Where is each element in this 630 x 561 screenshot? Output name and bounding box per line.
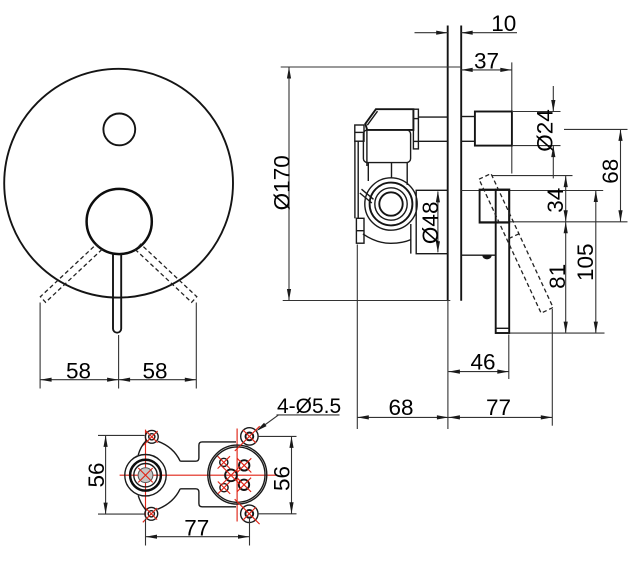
red X hole top-right <box>237 458 251 472</box>
left inner circle <box>134 464 157 487</box>
dim 10 right segment <box>461 32 517 34</box>
right top ear lobe <box>241 428 258 445</box>
red centerline horizontal <box>120 474 277 476</box>
valve top box right flange <box>413 109 418 149</box>
lower left tab <box>356 218 364 243</box>
upper left tab divider <box>355 131 364 133</box>
extension handle bottom <box>496 332 605 334</box>
hole bottom-left <box>220 484 228 492</box>
svg-text:4-Ø5.5: 4-Ø5.5 <box>277 395 341 418</box>
dim 81 <box>565 222 567 333</box>
extension line left 58 <box>39 303 41 389</box>
dim 56 left <box>105 435 107 514</box>
dimension line 58 58 <box>40 379 196 381</box>
left top ear lobe <box>145 430 158 443</box>
left body edge top <box>138 441 146 455</box>
dim 46 extension <box>508 335 510 380</box>
svg-text:37: 37 <box>474 49 499 74</box>
dim D170 line <box>288 67 290 301</box>
connector line right <box>406 163 408 185</box>
extension of wall line down <box>447 301 449 429</box>
extension valve body left down <box>356 245 358 430</box>
right plate outer circle <box>208 445 267 504</box>
cartridge housing circle <box>365 178 417 230</box>
dim 77 extension left <box>145 519 147 546</box>
red X on left hole <box>138 468 152 482</box>
cartridge middle circle <box>375 188 407 220</box>
left column line inner <box>357 141 359 218</box>
upper left tab <box>355 125 364 141</box>
cartridge inner circle <box>379 192 402 215</box>
extension line y190 <box>461 190 603 192</box>
trim sleeve bottom line <box>461 254 496 256</box>
valve top box chamfer inner line <box>367 111 377 125</box>
right plate inner circle <box>210 447 265 502</box>
handle bar cap line <box>496 327 510 329</box>
red X right top ear <box>235 426 260 451</box>
spout neck bottom <box>461 140 475 142</box>
cartridge outer circle <box>370 183 413 226</box>
red X hole bottom-left <box>218 482 230 494</box>
wall front line <box>447 26 449 301</box>
escutcheon plate circle <box>4 69 233 298</box>
dim 105 <box>595 191 597 334</box>
handle base circle <box>87 189 152 254</box>
dim 68 bottom <box>357 416 448 418</box>
dim 77 extension right <box>249 518 251 546</box>
left bottom ear lobe <box>145 507 158 520</box>
red X left top ear <box>143 431 157 445</box>
extension line y221 <box>480 221 628 223</box>
red X hole bottom-right <box>237 478 251 492</box>
red X left bottom ear <box>143 508 157 522</box>
hole top-left <box>220 458 228 466</box>
svg-text:68: 68 <box>598 159 623 184</box>
diverter button <box>103 113 135 145</box>
left body bulge bottom <box>157 489 180 510</box>
valve mid box <box>363 130 410 163</box>
connector line left <box>367 163 369 181</box>
inlet pipe to wall top <box>418 116 447 118</box>
red centerline vertical left <box>145 430 147 518</box>
dim 56 right extension top <box>258 435 296 437</box>
left column line outer <box>354 141 356 218</box>
spout cylinder <box>475 112 512 146</box>
dim 37 <box>461 69 512 71</box>
hole bottom-right <box>239 480 249 490</box>
SIDE VIEW <box>270 11 628 429</box>
connector line mid <box>391 163 393 178</box>
body bottom curve <box>363 234 411 243</box>
inlet pipe to wall bottom <box>418 140 447 142</box>
neck outline bottom <box>180 489 236 507</box>
dim 34 <box>565 176 567 222</box>
dim 56 right extension bottom <box>258 513 297 515</box>
outlet box to wall <box>416 190 448 253</box>
set screw bump <box>482 255 491 259</box>
valve mid box inner line <box>366 130 368 166</box>
extension line right 58 <box>195 303 197 389</box>
wall back line <box>460 26 462 301</box>
center hole <box>225 469 237 481</box>
right bottom ear lobe <box>241 505 258 522</box>
hole top-right <box>239 460 249 470</box>
label underline <box>277 414 340 416</box>
body right edge lower <box>410 224 412 254</box>
svg-text:Ø48: Ø48 <box>418 202 443 245</box>
left bold ring <box>130 460 161 491</box>
left body bulge top <box>158 441 180 461</box>
web diagonal <box>362 189 374 199</box>
right bottom ear hole <box>245 510 253 518</box>
svg-text:Ø24: Ø24 <box>533 109 558 152</box>
FRONT VIEW <box>4 69 233 389</box>
BOTTOM VIEW <box>84 395 341 546</box>
dim 77 bottom <box>448 416 552 418</box>
dim 10 left segment <box>415 32 448 34</box>
spout neck top <box>461 116 475 118</box>
red X center hole <box>222 467 240 485</box>
extension line y175 <box>492 175 573 177</box>
svg-text:10: 10 <box>491 11 516 36</box>
dashed lever left position <box>40 244 101 302</box>
red X hole top-left <box>218 456 230 468</box>
svg-text:34: 34 <box>543 188 568 213</box>
svg-text:105: 105 <box>573 243 598 281</box>
dashed lever rotated position <box>479 174 553 314</box>
handle pivot box <box>480 190 510 223</box>
dim D24 line lower <box>552 146 554 179</box>
valve top box <box>365 109 413 130</box>
svg-text:56: 56 <box>270 466 295 491</box>
left flange outer circle <box>125 455 166 496</box>
flange divider <box>413 118 418 120</box>
lower left tab divider <box>356 230 364 232</box>
extension dashed tip down <box>551 309 553 426</box>
svg-text:77: 77 <box>486 395 511 420</box>
dim D24 extension bottom <box>512 145 561 147</box>
dashed lever right position <box>136 244 197 302</box>
flange divider <box>413 140 418 142</box>
svg-text:58: 58 <box>142 359 167 384</box>
extension spout centerline right <box>564 128 628 130</box>
svg-text:58: 58 <box>66 359 91 384</box>
svg-text:Ø170: Ø170 <box>270 155 295 210</box>
left body edge bottom <box>138 495 146 510</box>
red X right bottom ear <box>235 499 260 524</box>
red centerline vertical right <box>236 429 238 522</box>
dim D24 extension top <box>512 111 561 113</box>
svg-text:56: 56 <box>84 462 109 487</box>
dim 77 bottom view <box>146 536 250 538</box>
neck outline top <box>180 442 236 461</box>
dim 68 right <box>620 129 622 221</box>
extension line center 58 <box>118 335 120 389</box>
dashed lever elbow line <box>507 234 519 240</box>
dim D170 extension bottom <box>283 300 451 302</box>
svg-text:46: 46 <box>470 349 495 374</box>
leader arrowhead <box>255 423 267 433</box>
svg-text:81: 81 <box>545 264 570 289</box>
right top ear hole <box>246 433 254 441</box>
left top ear hole <box>149 434 155 440</box>
dim D170 extension top <box>281 66 462 68</box>
left center hole <box>138 468 153 483</box>
handle stem <box>113 254 121 333</box>
web diagonal 2 <box>360 193 372 203</box>
leader line <box>259 415 279 430</box>
svg-text:68: 68 <box>388 395 413 420</box>
dim 46 <box>448 371 508 373</box>
dim 56 left extension top <box>98 434 145 436</box>
handle bar <box>496 190 510 333</box>
svg-text:77: 77 <box>184 515 209 540</box>
left bottom ear hole <box>148 511 154 517</box>
dim D48 <box>437 192 439 253</box>
dim D24 line upper <box>552 86 554 112</box>
dim 56 left extension bottom <box>98 513 145 515</box>
dim 56 right <box>291 436 293 513</box>
